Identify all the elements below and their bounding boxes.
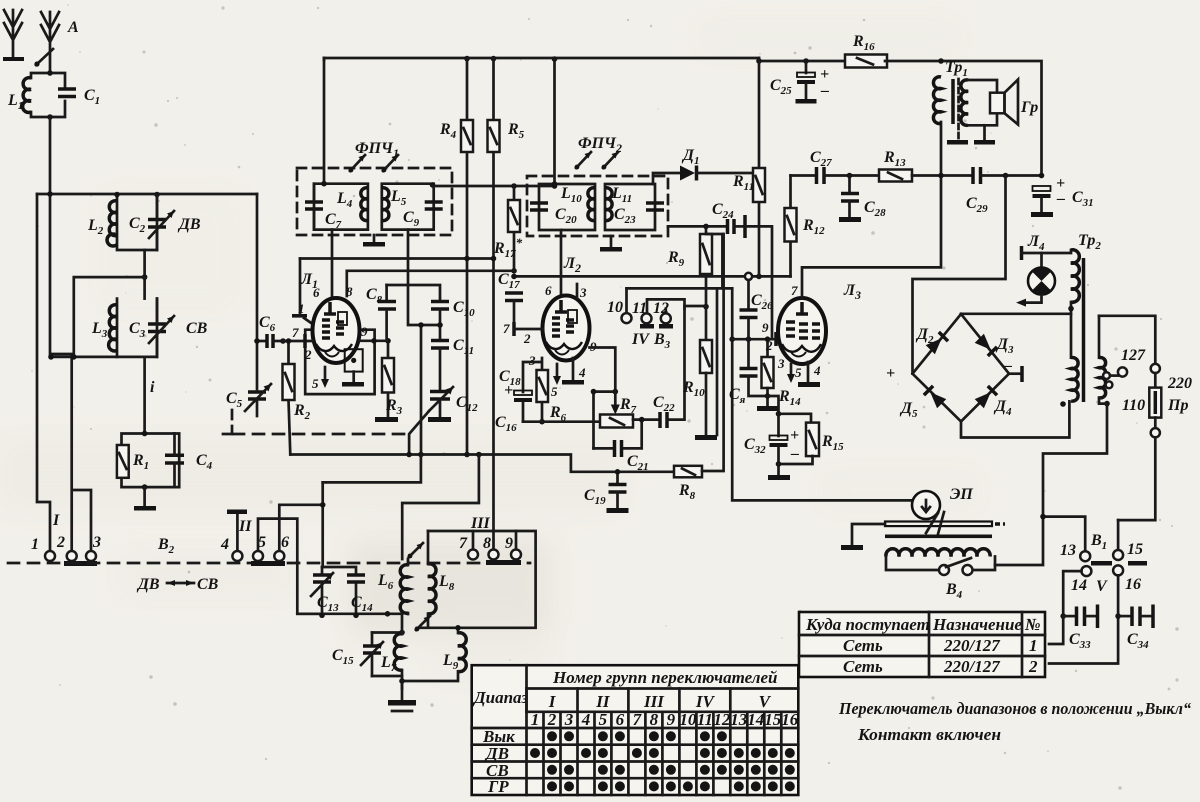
top supply bus (324, 58, 885, 61)
coil L7 (394, 634, 402, 670)
gang link diagonal (409, 411, 429, 455)
svg-text:–: – (820, 82, 829, 99)
svg-text:5: 5 (551, 384, 558, 399)
ground under R3 (375, 417, 398, 422)
wire rail x421 (420, 325, 423, 455)
C21 loop (594, 420, 642, 457)
capacitor C8 (378, 285, 396, 341)
svg-text:–: – (1056, 190, 1065, 207)
svg-text:III: III (643, 692, 665, 711)
antenna grounded (3, 10, 24, 61)
svg-text:Сеть: Сеть (843, 636, 883, 655)
contact 9 (511, 531, 521, 560)
capacitor C33 (1060, 605, 1097, 629)
contact 16 (1113, 565, 1123, 575)
svg-text:ДВ: ДВ (177, 216, 201, 233)
wire R14 node to C32 (768, 396, 812, 423)
electrolytic C31 (1031, 173, 1065, 217)
variable arrow C3 (149, 316, 174, 343)
contact 5 (253, 519, 322, 614)
tube L2 (543, 296, 590, 361)
svg-text:7: 7 (633, 710, 643, 729)
svg-text:11: 11 (697, 710, 713, 729)
potentiometer R7 (600, 415, 633, 428)
diode D5 (924, 386, 946, 408)
L2/C2 band coil box (107, 192, 166, 250)
svg-text:+: + (820, 66, 829, 83)
L7 loop with C15 (372, 633, 402, 677)
taps 0 0 (1103, 372, 1112, 388)
svg-text:10: 10 (679, 710, 697, 729)
electrolytic C25 (796, 61, 830, 104)
wire grid cap L1 pin1 (292, 259, 314, 326)
capacitor C34 (1118, 605, 1153, 629)
svg-text:1: 1 (531, 710, 540, 729)
B+ wire C29 to bridge (913, 176, 1006, 374)
wire bus right end down (885, 61, 1042, 176)
motor loop with B4 (886, 557, 995, 571)
svg-text:+: + (790, 427, 799, 444)
ground under L7/L9 (388, 681, 416, 711)
motor winding (886, 549, 990, 557)
ground FPCh1 (363, 235, 385, 247)
trimmer 4 (602, 152, 618, 169)
resistor R2 (283, 338, 295, 454)
svg-text:14: 14 (747, 710, 764, 729)
resistor R10 (700, 304, 712, 435)
trimmer L7/L9 (415, 616, 430, 631)
Tr2 secondary winding (1099, 316, 1110, 407)
svg-text:Переключатель диапазонов в: Переключатель диапазонов в положении „Вы… (838, 699, 1191, 718)
svg-text:15: 15 (1127, 541, 1143, 558)
ground FPCh2 (600, 236, 622, 252)
svg-text:9: 9 (667, 710, 676, 729)
switch bars B1 (1091, 561, 1147, 566)
closed contact bar 2-3 (64, 561, 97, 566)
row1 (843, 636, 1038, 655)
svg-text:IV: IV (631, 331, 650, 348)
wire W3 (387, 285, 440, 301)
minus output bar (1003, 357, 1022, 382)
capacitor C19 (607, 485, 629, 514)
C6 coupling cap (254, 334, 286, 348)
resistor R14 (762, 336, 774, 406)
wire left rail to contact 1 (37, 194, 50, 551)
wire bus left leg into FPCh1 (323, 58, 326, 184)
wire L2 pin9 to R7 wiper (590, 348, 616, 389)
svg-text:3: 3 (564, 710, 574, 729)
tonearm bars (885, 512, 1005, 538)
closed bars 11 12 (640, 324, 654, 329)
tank L11/C23 (605, 184, 664, 230)
label DV-SV arrows (136, 576, 219, 593)
trimmer 2 (382, 155, 398, 172)
bus W14 (523, 420, 600, 423)
dashed box FPCh1 (297, 168, 452, 235)
ground left of pickup (841, 524, 885, 550)
capacitor C24 (668, 215, 745, 238)
cathode arrow L3 (787, 364, 795, 383)
svg-text:127: 127 (1121, 347, 1146, 364)
scan smudges (0, 20, 980, 680)
svg-text:СВ: СВ (197, 576, 219, 593)
svg-text:ЭП: ЭП (950, 486, 973, 503)
bus y194 (37, 193, 257, 196)
speaker Gr (974, 80, 1018, 145)
resistor R16 (845, 55, 887, 68)
svg-text:1: 1 (298, 301, 305, 316)
svg-text:7: 7 (459, 535, 468, 552)
svg-text:7: 7 (292, 325, 299, 340)
switch B4 (939, 558, 973, 575)
rail from bus to C5 (256, 194, 259, 389)
wire L4 tank down to tube pin6 (331, 230, 334, 300)
plate wire L3 to Tr1 (802, 122, 941, 298)
contact 6 (274, 505, 322, 561)
wire FPCh1 secondary to R17 (434, 185, 555, 188)
C15 variable (361, 633, 383, 677)
svg-text:IV: IV (695, 692, 716, 711)
dashed gang link (218, 410, 232, 434)
svg-text:+: + (886, 365, 895, 382)
grid stopper bar pin7 (283, 334, 313, 348)
svg-text:7: 7 (791, 283, 798, 298)
Tr2 lamp winding (1042, 250, 1080, 314)
ground under C32 (768, 461, 790, 480)
svg-text:7: 7 (503, 321, 510, 336)
svg-text:2: 2 (56, 534, 65, 551)
svg-text:6: 6 (313, 285, 320, 300)
svg-text:2: 2 (304, 347, 312, 362)
resistor R11 (753, 61, 765, 276)
switch on antenna lead (34, 49, 53, 67)
svg-text:Назначение: Назначение (932, 615, 1022, 634)
electrolytic C32 (770, 414, 800, 464)
svg-text:9: 9 (762, 320, 769, 335)
wire L10 tank to L2 pin6 (560, 230, 563, 298)
resistor R3 (382, 338, 394, 417)
coil L6 (400, 565, 408, 613)
variable arrow C2 (149, 211, 174, 238)
tank L5/C9 (382, 182, 443, 230)
svg-text:220/127: 220/127 (943, 657, 1001, 676)
svg-text:9: 9 (505, 535, 513, 552)
svg-text:3: 3 (777, 356, 785, 371)
contact 12 (661, 313, 671, 323)
svg-text:Диапаз: Диапаз (472, 688, 529, 707)
cathode arrow L2 pin5 (553, 364, 561, 385)
svg-text:–: – (790, 445, 799, 462)
wire L5 tank down to C10/C11 node (408, 230, 440, 325)
svg-text:Контакт включен: Контакт включен (857, 725, 1001, 744)
capacitor C12 variable (429, 387, 453, 417)
svg-text:16: 16 (1125, 576, 1141, 593)
svg-text:6: 6 (616, 710, 625, 729)
svg-text:4: 4 (581, 710, 591, 729)
junction C10/C11 rail (437, 322, 443, 328)
contact 2 (67, 551, 77, 561)
dashed gang line D1 (233, 433, 407, 436)
Tr2 primary winding (1060, 357, 1078, 406)
svg-text:12: 12 (713, 710, 731, 729)
svg-text:2: 2 (765, 338, 773, 353)
closed contact bar 5-6 (251, 561, 285, 566)
capacitor C29 (973, 167, 1042, 184)
closed bar 8-9 (486, 560, 521, 565)
switch closed dots (547, 731, 557, 741)
wire H2 pickup line (627, 287, 733, 290)
diode D3 (975, 334, 997, 356)
antenna A (41, 12, 59, 73)
L3/C3 band coil box (109, 299, 166, 357)
wire W2 pin8 feed (347, 271, 514, 296)
R7 wiper arrow (591, 389, 620, 449)
svg-text:V: V (1096, 578, 1108, 595)
resistor R15 (779, 423, 820, 464)
bottom rail C13/C14 (297, 612, 402, 615)
ground under R1C4 (134, 487, 156, 510)
contact 15 (1113, 520, 1123, 560)
svg-text:15: 15 (764, 710, 782, 729)
svg-text:ДВ: ДВ (136, 576, 160, 593)
capacitor C22 (660, 309, 685, 428)
capacitor C10 (431, 302, 449, 341)
contact 4 with II bar (227, 510, 247, 562)
coil L9 (458, 633, 466, 672)
svg-text:ГР: ГР (487, 777, 509, 796)
svg-text:i: i (150, 379, 155, 396)
diode D4 (975, 386, 997, 408)
ground L3 pin5 (798, 362, 820, 387)
svg-text:A: A (67, 19, 79, 36)
svg-text:1: 1 (31, 536, 39, 553)
bottom bus W4 (290, 455, 674, 472)
wire loop 11-12 (647, 299, 685, 313)
shield box with dot (345, 349, 363, 382)
svg-text:220/127: 220/127 (943, 636, 1001, 655)
resistor R12 (785, 176, 797, 277)
svg-text:Сеть: Сеть (843, 657, 883, 676)
wire L2 to L3 (143, 250, 146, 299)
svg-text:9: 9 (361, 324, 368, 339)
C5 variable gang cap (245, 384, 271, 416)
capacitor C26 (740, 280, 758, 339)
pickup head EP (912, 491, 940, 519)
tank L4/C7 (305, 181, 368, 230)
capacitor Cya (740, 339, 768, 396)
ground in cathode box (342, 382, 364, 387)
C13 variable (311, 567, 333, 615)
wire B1-13 riser (1043, 517, 1085, 551)
rail to C13 (321, 482, 324, 567)
wire x717 (716, 288, 719, 435)
bridge top wire (961, 314, 1071, 358)
svg-text:№: № (1024, 615, 1041, 634)
wire tap y277 (74, 277, 145, 357)
wire R7 right (633, 418, 659, 421)
capacitor C11 (431, 341, 449, 392)
trimmer L6/L8 (408, 543, 423, 558)
wire 14 to C33 (1063, 571, 1081, 616)
dashed switch line (8, 562, 530, 565)
svg-text:Гр: Гр (1020, 99, 1038, 116)
coil L8 (428, 564, 436, 614)
tank L10/C20 (530, 181, 595, 230)
shield loop box (417, 531, 536, 628)
svg-text:110: 110 (1122, 397, 1145, 414)
diode bridge wires (913, 314, 1010, 422)
svg-text:Номер групп переключателей: Номер групп переключателей (552, 668, 777, 687)
wire C19/R8 input (616, 472, 619, 484)
secondary bottom wire down (995, 398, 1107, 565)
svg-text:5: 5 (795, 365, 802, 380)
svg-text:14: 14 (1071, 577, 1087, 594)
svg-text:6: 6 (545, 283, 552, 298)
dashed box FPCh2 (527, 176, 668, 236)
contact 3 (73, 490, 96, 561)
audio line W6 (791, 174, 816, 177)
svg-text:13: 13 (1060, 542, 1076, 559)
svg-text:8: 8 (346, 284, 353, 299)
resistor R17 (508, 186, 520, 271)
contact 10 (622, 288, 632, 323)
ground under Tr1 core (947, 140, 968, 145)
resistor R9 (700, 226, 722, 306)
svg-text:12: 12 (653, 300, 669, 317)
resistor R8 (674, 234, 724, 477)
svg-text:II: II (595, 692, 611, 711)
svg-text:5: 5 (599, 710, 608, 729)
svg-text:13: 13 (730, 710, 748, 729)
diode D2 (926, 332, 948, 354)
contact 11 (642, 313, 652, 323)
wire C33 node to table row1 (1049, 616, 1063, 644)
resistor R13 (879, 170, 972, 182)
wire C24 to L3 area (745, 226, 772, 339)
svg-text:3: 3 (92, 534, 101, 551)
svg-text:3: 3 (579, 285, 587, 300)
resistor R5 (488, 59, 500, 551)
svg-text:11: 11 (632, 300, 647, 317)
grid bar L3 pin9 (774, 332, 778, 346)
svg-text:V: V (759, 692, 772, 711)
trimmer 1 (349, 155, 365, 172)
svg-text:4: 4 (813, 363, 821, 378)
svg-text:II: II (238, 518, 252, 535)
resistor R4 (461, 59, 473, 455)
contact 8 (489, 550, 499, 560)
wire L6 top riser (402, 455, 479, 560)
svg-text:4: 4 (220, 536, 229, 553)
Tr2 core (1082, 258, 1086, 402)
svg-text:1: 1 (1029, 636, 1038, 655)
wire antenna tank down (50, 117, 72, 551)
ground L2 pin4 (562, 358, 584, 385)
svg-text:СВ: СВ (186, 320, 208, 337)
svg-text:III: III (470, 515, 490, 532)
trimmer 3 (575, 152, 591, 169)
svg-text:8: 8 (650, 710, 659, 729)
tube L1 (305, 298, 374, 394)
L1/C1 tank (23, 70, 76, 120)
stub L2 pin3 (576, 284, 579, 298)
group header cells (527, 689, 731, 712)
wire bus to FPCh2 (553, 59, 556, 186)
wire L3 grid (732, 338, 779, 341)
wire W11 (323, 455, 421, 483)
bus y276 (514, 275, 791, 278)
svg-text:2: 2 (1028, 657, 1038, 676)
row2 (843, 657, 1038, 676)
connector circle C26 rail (745, 273, 752, 280)
wire pin9 (360, 339, 388, 342)
contact 13 (1080, 551, 1090, 561)
svg-text:4: 4 (578, 365, 586, 380)
svg-text:Пр: Пр (1167, 397, 1188, 414)
svg-text:8: 8 (483, 535, 491, 552)
row labels (482, 727, 515, 796)
diode D1 (653, 166, 755, 185)
wire W1 screen feed (300, 257, 494, 260)
ground under R10 (695, 435, 717, 440)
fuse Pr with contacts (1118, 364, 1161, 520)
svg-text:10: 10 (607, 299, 623, 316)
ground under R14 (757, 406, 779, 411)
capacitor C27 (817, 167, 880, 184)
svg-text:6: 6 (281, 534, 289, 551)
grid rail L3 (732, 288, 918, 503)
svg-text:Куда поступает: Куда поступает (805, 615, 930, 634)
C14 (322, 567, 365, 615)
svg-text:I: I (52, 512, 60, 529)
wire i down (143, 357, 146, 434)
contact 7 (468, 531, 478, 560)
wire L3 bottom to antenna rail (51, 356, 117, 359)
svg-text:5: 5 (258, 534, 266, 551)
wire H1 (685, 305, 707, 308)
top AC wire (1099, 316, 1155, 364)
cathode arrow pin5 (321, 367, 329, 388)
R1/C4 block (117, 431, 184, 490)
svg-text:2: 2 (547, 710, 557, 729)
svg-text:16: 16 (781, 710, 799, 729)
contact 1 (45, 551, 55, 561)
wire 16 down (1049, 575, 1118, 663)
resistor R6 (537, 358, 549, 425)
capacitor C28 (839, 176, 861, 223)
capacitor C17 (505, 293, 523, 329)
ground under C12 (428, 417, 451, 422)
svg-text:2: 2 (523, 331, 531, 346)
contact 14 (1081, 566, 1091, 576)
svg-text:–: – (1003, 357, 1012, 374)
svg-text:5: 5 (312, 376, 319, 391)
number row (544, 712, 782, 795)
svg-text:220: 220 (1167, 375, 1192, 392)
lamp L4 (1016, 246, 1055, 307)
electrolytic C18/C16 (504, 362, 541, 422)
bridge bottom to primary (961, 401, 1069, 437)
transformer Tr1 (933, 77, 997, 138)
svg-text:3: 3 (528, 353, 536, 368)
tap 127 contact (1110, 367, 1127, 376)
tube L3 (778, 298, 826, 364)
grid bar L2 pin7 (514, 322, 543, 336)
